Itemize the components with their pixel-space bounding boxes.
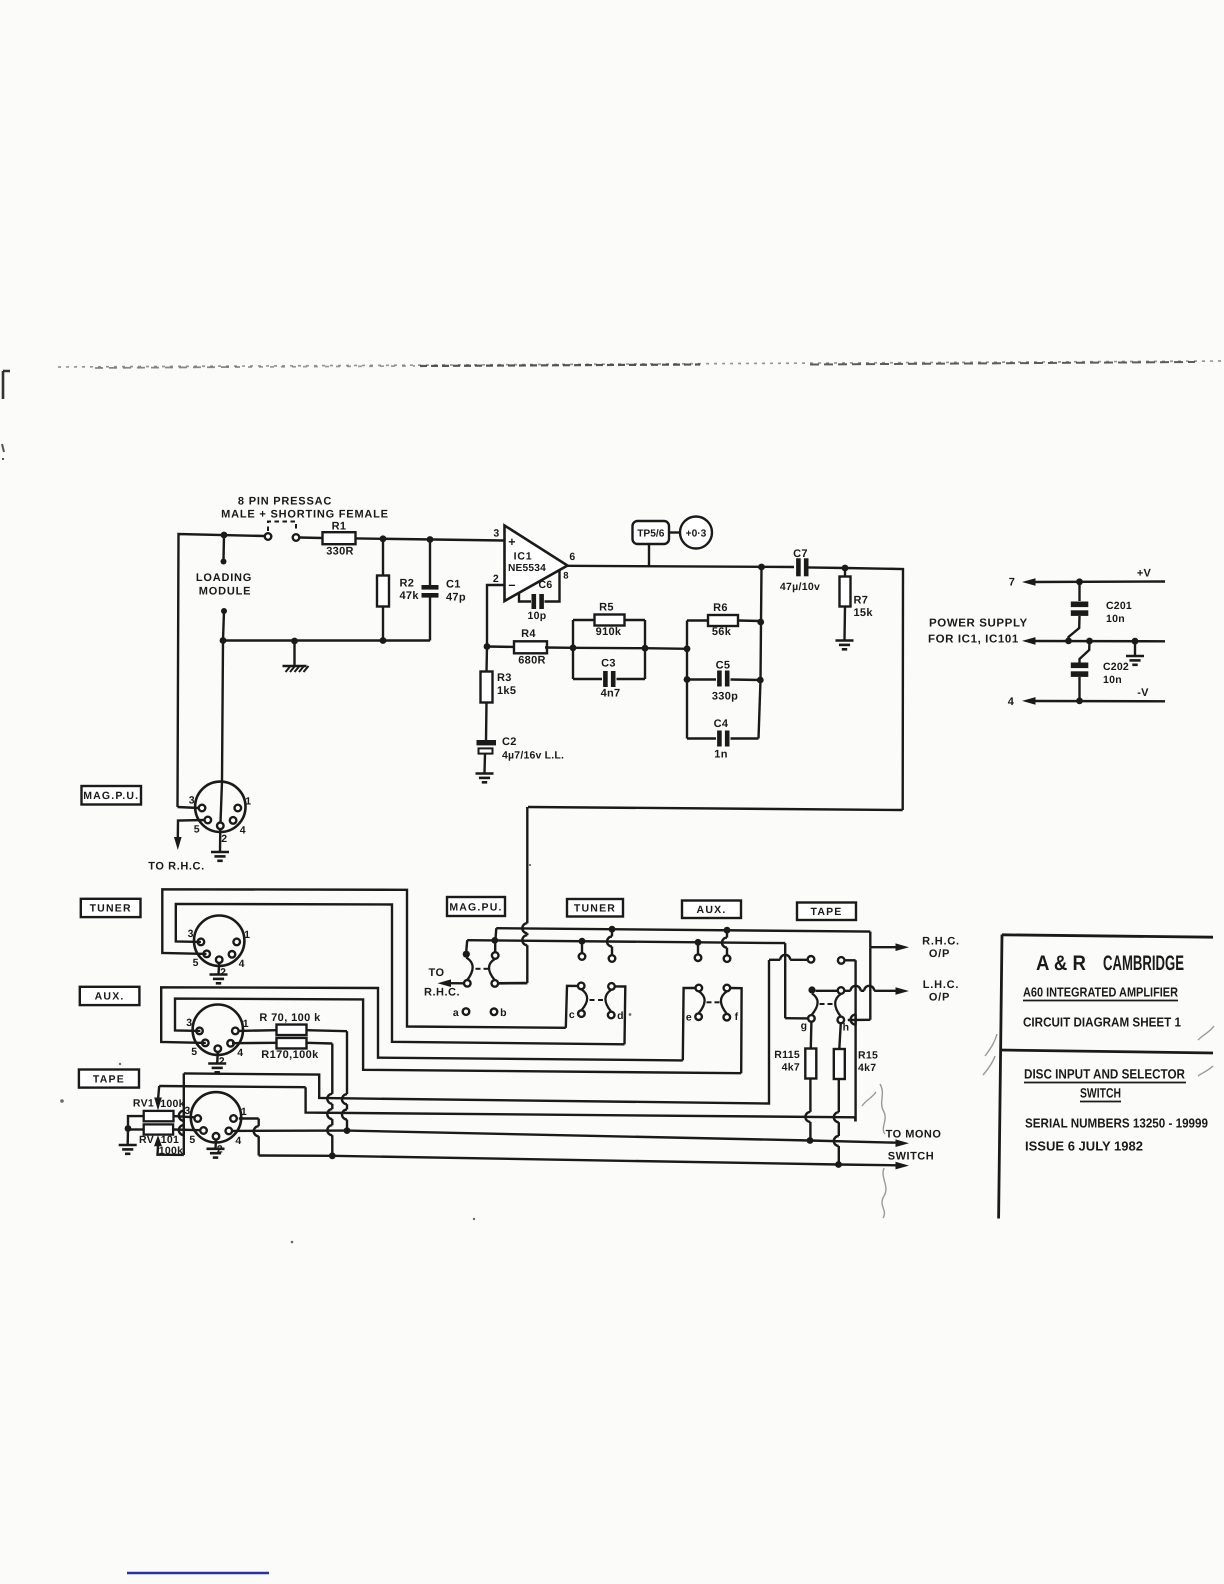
scan artifact: small specks — [60, 864, 1065, 1243]
svg-text:b: b — [500, 1007, 507, 1019]
wire: feed drop to MAG.PU switch contact b (hops both output buses) — [499, 807, 528, 983]
resistor R15 4k7 — [834, 1023, 878, 1079]
switch AUX position: contact arms e/f — [686, 985, 739, 1024]
svg-text:100k: 100k — [160, 1098, 185, 1110]
svg-text:5: 5 — [194, 823, 200, 835]
svg-text:910k: 910k — [596, 626, 622, 638]
svg-text:RV1: RV1 — [133, 1098, 154, 1110]
wire: AUX pin 3 loop out (to switch contact f) — [175, 999, 741, 1074]
wire: TUNER pin 3 loop out (to switch contact d) — [176, 904, 625, 1044]
wire: AUX position stub from row2 — [695, 942, 702, 961]
wire: loading module lower stub down to ground rail — [221, 608, 227, 641]
svg-text:47µ/10v: 47µ/10v — [780, 581, 820, 593]
wire: output bus row 1 (R.H.C.) — [496, 926, 870, 934]
svg-text:1: 1 — [243, 1018, 249, 1030]
svg-text:3: 3 — [493, 528, 499, 540]
svg-text:O/P: O/P — [929, 948, 950, 960]
svg-text:5: 5 — [189, 1134, 195, 1146]
svg-text:h: h — [843, 1022, 850, 1034]
svg-text:2: 2 — [493, 573, 499, 585]
svg-text:TAPE: TAPE — [810, 906, 842, 918]
svg-text:4n7: 4n7 — [601, 688, 621, 700]
capacitor C202 10n — [1071, 641, 1129, 701]
wire: RV101 track to TAPE pin 5 — [173, 1128, 200, 1131]
svg-text:d: d — [617, 1010, 624, 1022]
svg-text:NE5534: NE5534 — [508, 563, 546, 574]
svg-text:TUNER: TUNER — [574, 903, 616, 915]
wire: R.H.C. O/P tap from row1 — [870, 932, 909, 951]
capacitor C7 47u/10v — [780, 548, 845, 593]
node: junction of input bus at loading module tap — [221, 532, 228, 539]
wire: loading module upper stub — [221, 535, 227, 565]
svg-text:A & R: A & R — [1036, 952, 1086, 975]
title: DISC INPUT AND SELECTOR SWITCH — [1024, 1067, 1186, 1102]
svg-text:-V: -V — [1137, 687, 1149, 699]
ground: AUX pin 2 — [208, 1052, 226, 1072]
wire: TUNER pin 5 loop out (to switch contact c) — [162, 889, 566, 1028]
svg-text:L.H.C.: L.H.C. — [923, 979, 960, 991]
svg-text:R5: R5 — [599, 602, 614, 614]
svg-text:+0·3: +0·3 — [686, 529, 707, 540]
resistor R6 56k — [687, 602, 761, 638]
label box TUNER (switch) — [567, 899, 623, 917]
svg-text:DISC INPUT AND SELECTOR: DISC INPUT AND SELECTOR — [1024, 1067, 1185, 1082]
ground: chassis ground on input rail (hatched) — [283, 638, 309, 672]
svg-text:1n: 1n — [714, 749, 727, 761]
svg-text:4: 4 — [239, 958, 245, 970]
title: CIRCUIT DIAGRAM SHEET 1 — [1023, 1015, 1181, 1030]
capacitor C1 47p — [422, 540, 466, 641]
resistor R70, 100k (AUX pin 1) — [239, 1012, 322, 1035]
wire: row A - RV101 wiper to TAPE switch top-left contact — [154, 955, 808, 1155]
op-amp IC1 NE5534 — [493, 526, 576, 602]
svg-text:2: 2 — [219, 1056, 225, 1068]
svg-text:3: 3 — [189, 794, 195, 806]
svg-text:2: 2 — [220, 967, 226, 979]
wire: e bracket to aux loop — [683, 988, 696, 1060]
svg-text:15k: 15k — [854, 607, 874, 619]
resistor R5 910k — [573, 602, 645, 639]
svg-text:4: 4 — [237, 1047, 243, 1059]
resistor R1 330R — [300, 521, 356, 558]
capacitor C5 330p — [687, 660, 760, 703]
wire: TUNER position stub from row1 (hops row2) — [607, 929, 615, 962]
scan artifact: pencil squiggles — [862, 1026, 1214, 1218]
svg-text:1: 1 — [245, 795, 251, 807]
svg-text:4: 4 — [240, 824, 246, 836]
wire: input bus from MAG.P.U. pin 3 up the left side to R1 — [178, 534, 265, 807]
capacitor C3 4n7 — [573, 658, 645, 700]
DIN socket: TAPE — [184, 1092, 247, 1155]
svg-text:2: 2 — [221, 833, 227, 845]
test point TP5/6 — [633, 521, 670, 566]
DIN socket: TUNER — [188, 916, 251, 979]
svg-text:R170,100k: R170,100k — [261, 1049, 319, 1061]
svg-text:5: 5 — [193, 957, 199, 969]
svg-text:MAG.PU.: MAG.PU. — [449, 901, 502, 913]
svg-text:5: 5 — [191, 1046, 197, 1058]
wire: +V supply line (pin 7) — [1009, 568, 1165, 589]
resistor R4 680R — [484, 628, 573, 667]
label box MAG.P.U. — [82, 786, 142, 805]
wire: g bracket up to row2 — [785, 943, 808, 1018]
svg-text:e: e — [686, 1011, 692, 1023]
svg-text:R1: R1 — [332, 521, 347, 533]
svg-text:47k: 47k — [400, 590, 420, 602]
svg-text:3: 3 — [188, 928, 194, 940]
switch TAPE position: contact arms g/h — [801, 987, 850, 1033]
svg-text:4k7: 4k7 — [858, 1062, 876, 1074]
DIN socket: AUX — [186, 1004, 249, 1067]
capacitor C201 10n — [1069, 582, 1132, 641]
svg-text:R15: R15 — [858, 1050, 878, 1062]
wire: row1 drop continues to contact h (hops L.H.C. line) — [848, 947, 871, 1020]
svg-text:10p: 10p — [528, 610, 547, 622]
title: A & R CAMBRIDGE — [1036, 952, 1184, 975]
label: L.H.C. O/P — [923, 979, 960, 1004]
wire: R6 network left rail — [684, 621, 691, 739]
svg-text:−: − — [508, 579, 516, 593]
svg-text:C2: C2 — [502, 736, 517, 748]
svg-text:C4: C4 — [714, 718, 729, 730]
wire: row B - RV1 wiper to TAPE switch top-right contact — [154, 960, 855, 1121]
svg-text:IC1: IC1 — [514, 551, 533, 563]
svg-text:TO: TO — [428, 967, 444, 979]
wire: MAG.PU switch b-side to feed — [498, 982, 527, 985]
wire: R115 to mono row 1 (hops row B) — [805, 1079, 813, 1144]
label box TAPE (switch) — [797, 903, 856, 921]
svg-text:R115: R115 — [774, 1049, 800, 1061]
title: ISSUE 6 JULY 1982 — [1025, 1139, 1143, 1154]
node: spare contacts a and b — [453, 1007, 507, 1019]
svg-text:AUX.: AUX. — [95, 991, 125, 1003]
svg-text:TO MONO: TO MONO — [886, 1129, 942, 1141]
label box TUNER — [81, 899, 141, 917]
wire: -V supply line (pin 4) — [1008, 687, 1165, 708]
svg-text:4k7: 4k7 — [782, 1062, 800, 1074]
switch TAPE position: top contacts — [808, 956, 845, 964]
resistor R2 47k — [377, 539, 419, 644]
wire: f bracket to aux loop — [730, 988, 741, 1073]
svg-text:C6: C6 — [538, 579, 552, 591]
wire: mid rail between networks — [573, 648, 687, 649]
svg-text:O/P: O/P — [929, 992, 950, 1004]
svg-text:C3: C3 — [601, 658, 616, 670]
svg-text:10n: 10n — [1103, 674, 1122, 686]
label: TO MONO SWITCH — [886, 1129, 942, 1163]
resistor R7 15k — [840, 565, 874, 640]
wire: R170 output down to tape record line (hops rows A,B and pin4 row) — [307, 1043, 336, 1159]
svg-text:1: 1 — [244, 929, 250, 941]
svg-text:POWER SUPPLY: POWER SUPPLY — [929, 618, 1028, 630]
svg-text:4µ7/16v L.L.: 4µ7/16v L.L. — [502, 750, 564, 762]
wire: AUX position stub from row1 (hops row2) — [722, 930, 730, 962]
wire: op-amp output to C7 — [568, 564, 795, 571]
svg-text:A60 INTEGRATED AMPLIFIER: A60 INTEGRATED AMPLIFIER — [1023, 985, 1179, 1000]
svg-text:R7: R7 — [854, 595, 869, 607]
test voltage +0.3 circle — [669, 517, 712, 549]
wire: row1 left end drop onto row2 and MAG.PU right pivot — [495, 928, 496, 952]
label: TO R.H.C. — [148, 861, 205, 873]
wire: op-amp inverting input (pin 2) down to R4/R3 node — [487, 585, 505, 647]
label: TO R.H.C. at switch — [424, 967, 460, 999]
svg-text:SWITCH: SWITCH — [888, 1151, 934, 1163]
svg-text:TUNER: TUNER — [90, 903, 132, 915]
svg-text:g: g — [801, 1020, 808, 1032]
wire: MAG.P.U. pin 2 centre feed and ground — [211, 782, 229, 861]
scan artifact: dotted fold line across page — [58, 361, 1224, 368]
wire: TUNER position stub from row2 — [579, 941, 586, 960]
svg-text:AUX.: AUX. — [697, 904, 727, 916]
svg-text:8: 8 — [563, 571, 569, 582]
svg-text:f: f — [735, 1011, 739, 1023]
potentiometer RV101 100k — [139, 1124, 183, 1157]
svg-text:8 PIN PRESSAC: 8 PIN PRESSAC — [238, 496, 332, 508]
svg-text:CAMBRIDGE: CAMBRIDGE — [1103, 952, 1184, 975]
ground: TAPE pin 2 — [207, 1140, 225, 1158]
svg-text:4: 4 — [1008, 696, 1015, 708]
scan artifact: blue pen line at bottom — [127, 1572, 269, 1575]
svg-text:C201: C201 — [1106, 600, 1132, 612]
wire: mono row 2 to arrow — [332, 1156, 909, 1170]
svg-text:MAG.P.U.: MAG.P.U. — [83, 790, 139, 802]
wire: R1 to op-amp pin 3, junctions to R2 and C1 — [356, 535, 504, 543]
title: SERIAL NUMBERS 13250 - 19999 — [1025, 1116, 1208, 1131]
label: R.H.C. O/P — [922, 936, 960, 960]
svg-text:C202: C202 — [1103, 661, 1129, 673]
wire: TAPE pin 1 play output drop to mono row 2 — [239, 1119, 332, 1156]
wire: R5/C3 left rail — [570, 620, 577, 679]
svg-text:6: 6 — [569, 551, 575, 563]
ground: TUNER pin 2 — [210, 963, 228, 983]
svg-text:47p: 47p — [446, 592, 466, 604]
wire: L.H.C. O/P line from left arm pivot — [808, 986, 909, 995]
svg-text:R2: R2 — [400, 578, 415, 590]
svg-text:C7: C7 — [793, 548, 808, 560]
svg-text:LOADING: LOADING — [196, 572, 252, 584]
ground: below R7 — [836, 641, 854, 650]
wire: R15 to mono row 2 (hops row B and mono row 1) — [834, 1079, 839, 1165]
wire: MAG.P.U. pin 5 to R.H.C. arrow — [174, 820, 205, 850]
scan artifact: left edge marks — [2, 371, 10, 460]
wire: R5/C3 right rail — [642, 620, 649, 679]
svg-text:C1: C1 — [446, 579, 461, 591]
svg-text:SERIAL NUMBERS 13250 - 19999: SERIAL NUMBERS 13250 - 19999 — [1025, 1116, 1208, 1131]
title: A60 INTEGRATED AMPLIFIER — [1023, 985, 1179, 1001]
label box TAPE — [79, 1070, 139, 1088]
svg-text:3: 3 — [186, 1017, 192, 1029]
resistor R115 4k7 — [774, 1022, 816, 1079]
svg-text:R.H.C.: R.H.C. — [922, 936, 960, 948]
wire: R6 network right rail from output node — [757, 567, 764, 739]
svg-text:TP5/6: TP5/6 — [637, 529, 665, 540]
wire: preamp output feed down and across to selector (via x903, y807, x527) — [528, 568, 903, 810]
svg-text:+: + — [508, 535, 516, 549]
svg-text:330R: 330R — [326, 546, 354, 558]
svg-text:RV: RV — [139, 1134, 154, 1146]
svg-text:ISSUE 6 JULY 1982: ISSUE 6 JULY 1982 — [1025, 1139, 1143, 1154]
svg-text:R 70, 100 k: R 70, 100 k — [259, 1012, 321, 1024]
svg-text:MODULE: MODULE — [199, 586, 251, 598]
switch MAG.PU position: ganged arms — [463, 951, 499, 987]
connector: 8 PIN PRESSAC male + shorting female — [221, 496, 389, 541]
svg-text:FOR IC1, IC101: FOR IC1, IC101 — [928, 634, 1019, 646]
wire: ground rail under R2/C1 — [220, 637, 430, 644]
potentiometer RV1 100k — [133, 1098, 185, 1122]
svg-text:7: 7 — [1009, 577, 1015, 589]
DIN socket: MAG.P.U. — [189, 782, 252, 845]
label box AUX. (switch) — [682, 901, 741, 919]
capacitor C6 10p compensation loop — [519, 571, 560, 623]
svg-text:1k5: 1k5 — [497, 685, 516, 697]
svg-text:680R: 680R — [518, 655, 546, 667]
wire: AUX pin 5 loop out (to switch contact e) — [161, 987, 683, 1060]
wire: RV1 track to TAPE pin 3 — [174, 1116, 195, 1117]
resistor R170,100k (AUX pin 4) — [232, 1038, 319, 1061]
label: POWER SUPPLY FOR IC1, IC101 — [928, 618, 1028, 646]
svg-text:10n: 10n — [1106, 613, 1125, 625]
capacitor C2 4u7/16v electrolytic — [477, 736, 565, 762]
svg-text:101: 101 — [161, 1134, 179, 1146]
wire: MAG.P.U. pin2 feed (loading module rail down to DIN) — [222, 641, 223, 782]
svg-text:SWITCH: SWITCH — [1080, 1086, 1121, 1101]
svg-text:+V: +V — [1137, 568, 1152, 580]
wire: c bracket to tuner loop — [566, 986, 578, 1028]
svg-text:C5: C5 — [716, 660, 731, 672]
capacitor C4 1n — [687, 718, 759, 761]
svg-text:c: c — [569, 1009, 575, 1021]
svg-text:3: 3 — [184, 1105, 190, 1117]
svg-text:a: a — [453, 1007, 459, 1019]
svg-text:CIRCUIT DIAGRAM SHEET 1: CIRCUIT DIAGRAM SHEET 1 — [1023, 1015, 1181, 1030]
svg-text:R4: R4 — [521, 628, 536, 640]
resistor R3 1k5 — [481, 647, 517, 741]
wire: MAG.PU switch to TO R.H.C. arrow — [438, 979, 465, 987]
svg-text:1: 1 — [241, 1106, 247, 1118]
ground: on mid supply line — [1126, 641, 1144, 665]
svg-text:TAPE: TAPE — [93, 1073, 125, 1085]
wire: 0V mid supply line — [1022, 637, 1165, 645]
svg-text:R6: R6 — [713, 602, 728, 614]
svg-text:4: 4 — [235, 1135, 241, 1147]
svg-text:R.H.C.: R.H.C. — [424, 987, 460, 999]
wire: RV1/RV101 left ends commoned to ground — [119, 1116, 144, 1154]
svg-text:56k: 56k — [712, 626, 732, 638]
svg-text:TO R.H.C.: TO R.H.C. — [148, 861, 205, 873]
wire: R70 output down to tape record line (hops rows A and B) — [307, 1030, 351, 1134]
label box MAG.PU. (switch) — [447, 897, 505, 916]
title block frame — [999, 935, 1213, 1219]
wire: TAPE pin 4 record line to TO MONO arrow (mono row 1) — [232, 1131, 909, 1147]
svg-text:330p: 330p — [712, 691, 738, 703]
label box AUX. — [80, 987, 140, 1005]
wire: row2 left end drop to MAG.PU left pivot — [465, 940, 468, 951]
wire: output bus row 2 (L.H.C.) — [467, 937, 785, 946]
label: LOADING MODULE — [196, 572, 252, 598]
switch TUNER position: contact arms c/d — [569, 983, 624, 1022]
wire: d bracket to tuner loop — [615, 986, 626, 1044]
svg-text:MALE + SHORTING FEMALE: MALE + SHORTING FEMALE — [221, 509, 389, 521]
wire: MAG.P.U. pin 3 link — [178, 807, 199, 808]
ground: below C2 — [476, 754, 494, 783]
svg-text:R3: R3 — [497, 672, 512, 684]
